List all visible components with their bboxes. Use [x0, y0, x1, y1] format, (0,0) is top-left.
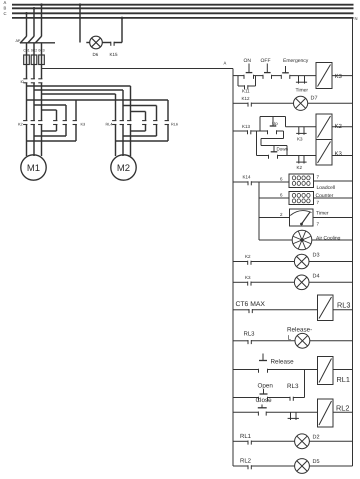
svg-text:K13: K13	[242, 124, 251, 129]
svg-text:K12: K12	[242, 96, 251, 101]
svg-text:OFF: OFF	[261, 58, 271, 64]
svg-text:C: C	[4, 11, 7, 16]
svg-text:RL3: RL3	[244, 331, 256, 338]
svg-text:K3: K3	[335, 73, 343, 80]
svg-text:A: A	[224, 61, 227, 66]
svg-text:RL3: RL3	[287, 383, 299, 390]
svg-text:D7: D7	[311, 96, 318, 102]
svg-text:Up: Up	[272, 121, 278, 126]
svg-text:M1: M1	[27, 163, 40, 174]
svg-text:D4: D4	[313, 273, 320, 279]
svg-text:Timer: Timer	[296, 88, 309, 94]
svg-text:0C3: 0C3	[38, 49, 44, 53]
svg-text:RL2: RL2	[240, 458, 252, 465]
svg-text:Emergency: Emergency	[283, 58, 309, 64]
svg-text:RL1: RL1	[240, 433, 252, 440]
svg-text:D2: D2	[313, 434, 320, 440]
svg-text:D6: D6	[93, 52, 99, 57]
svg-text:6: 6	[280, 193, 283, 198]
svg-text:Close: Close	[256, 397, 273, 404]
svg-text:L: L	[288, 335, 292, 342]
svg-text:B: B	[4, 5, 7, 10]
svg-text:N: N	[355, 16, 358, 21]
svg-text:Open: Open	[258, 383, 274, 390]
svg-text:Loadcell: Loadcell	[317, 185, 336, 191]
svg-text:K2: K2	[335, 123, 343, 130]
svg-text:RL1: RL1	[337, 375, 350, 384]
svg-text:7: 7	[317, 222, 320, 227]
svg-text:C01: C01	[23, 49, 29, 53]
svg-text:Counter: Counter	[316, 193, 334, 199]
svg-text:Release-: Release-	[287, 327, 312, 334]
svg-text:ON: ON	[244, 58, 252, 64]
svg-text:K3: K3	[335, 151, 343, 158]
svg-text:D5: D5	[313, 459, 320, 465]
svg-text:Release: Release	[271, 359, 295, 366]
svg-text:A: A	[4, 0, 7, 5]
svg-text:K14: K14	[243, 175, 252, 180]
svg-text:M2: M2	[117, 163, 130, 174]
svg-text:K2: K2	[297, 165, 303, 170]
svg-text:Air Cooling: Air Cooling	[316, 236, 341, 242]
svg-text:RL4: RL4	[106, 123, 113, 127]
svg-text:RL3: RL3	[337, 301, 350, 310]
svg-text:RL2: RL2	[336, 404, 349, 413]
svg-text:CT6 MAX: CT6 MAX	[236, 301, 266, 308]
svg-text:2: 2	[280, 212, 283, 217]
svg-text:AF: AF	[16, 39, 22, 43]
svg-text:K11: K11	[242, 89, 250, 94]
svg-text:K3: K3	[245, 275, 251, 280]
svg-text:K2: K2	[245, 254, 251, 259]
svg-text:7: 7	[317, 200, 320, 205]
svg-text:K3: K3	[81, 123, 86, 127]
svg-text:6: 6	[280, 177, 283, 182]
svg-text:K2: K2	[18, 123, 23, 127]
svg-text:RL6: RL6	[171, 123, 178, 127]
svg-text:K3: K3	[297, 137, 303, 142]
svg-text:D3: D3	[313, 253, 320, 259]
svg-text:I0: I0	[21, 80, 24, 84]
svg-text:K15: K15	[110, 52, 119, 57]
svg-text:Timer: Timer	[316, 211, 329, 217]
svg-text:0C2: 0C2	[31, 49, 37, 53]
svg-text:7: 7	[317, 175, 320, 180]
